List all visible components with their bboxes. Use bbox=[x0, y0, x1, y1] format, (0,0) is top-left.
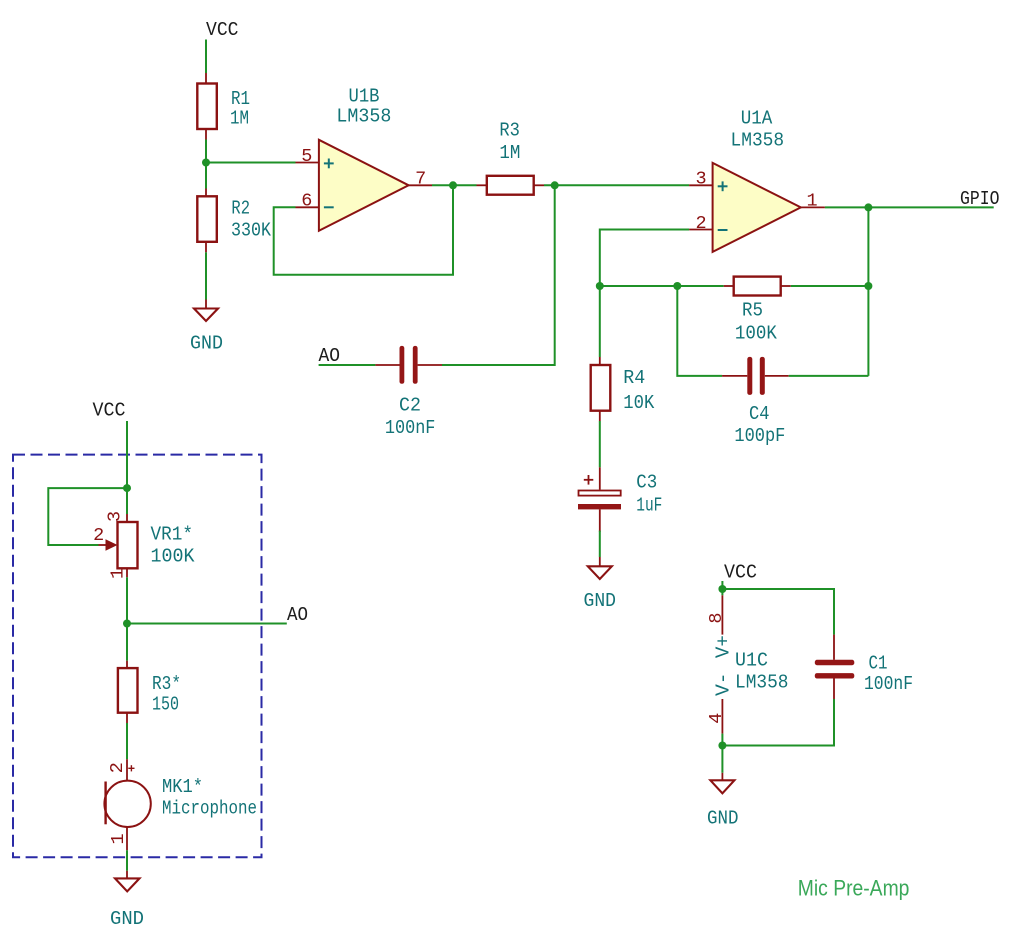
pin 6 of U1B bbox=[296, 206, 319, 208]
svg-text:VR1*: VR1* bbox=[151, 524, 194, 546]
svg-text:AO: AO bbox=[319, 345, 341, 367]
svg-text:V+: V+ bbox=[713, 635, 735, 658]
svg-text:AO: AO bbox=[287, 604, 308, 626]
svg-text:2: 2 bbox=[695, 213, 706, 234]
dashed box (mic module) bbox=[13, 455, 262, 858]
wire top rail to C1 bbox=[722, 589, 834, 635]
wire C2 to R3 junction bbox=[442, 185, 555, 365]
wire U1A pin2 to R5 node bbox=[600, 230, 689, 287]
wire C4 left branch bbox=[677, 286, 722, 376]
wire R5 right segment bbox=[791, 285, 869, 287]
svg-text:4: 4 bbox=[706, 713, 727, 724]
pin name - (U1B) bbox=[324, 206, 334, 208]
pin name + (U1B) bbox=[324, 159, 334, 169]
svg-text:C1: C1 bbox=[869, 653, 888, 675]
wire R3 to U1A pin 3 bbox=[544, 184, 689, 186]
svg-text:MK1*: MK1* bbox=[162, 776, 203, 798]
resistor R5 bbox=[724, 277, 791, 296]
junction U1A output bbox=[864, 203, 872, 211]
pin plus mark (MK1) bbox=[128, 765, 134, 771]
wire pin4 to GND bbox=[721, 734, 723, 773]
wire R5 left segment bbox=[600, 285, 724, 287]
wire MK1 to GND bbox=[126, 850, 128, 871]
svg-text:150: 150 bbox=[152, 694, 179, 716]
svg-text:Microphone: Microphone bbox=[162, 798, 257, 820]
svg-text:U1A: U1A bbox=[741, 108, 773, 130]
wire C1 bottom to rail bbox=[722, 699, 834, 746]
svg-text:10K: 10K bbox=[623, 392, 655, 414]
pin 2 of U1A bbox=[689, 229, 713, 231]
wire C4 right to feedback bbox=[789, 375, 869, 377]
junction pin2/R4 node bbox=[596, 282, 604, 290]
resistor R3* bbox=[118, 661, 138, 723]
junction U1B output bbox=[449, 181, 457, 189]
junction VCC/C1 top bbox=[718, 585, 726, 593]
pin 5 of U1B bbox=[296, 162, 319, 164]
svg-text:100nF: 100nF bbox=[385, 417, 436, 439]
svg-text:C2: C2 bbox=[399, 395, 421, 417]
svg-text:LM358: LM358 bbox=[731, 130, 785, 152]
wire junction to U1B pin 5 bbox=[206, 162, 296, 164]
microphone MK1 bbox=[104, 759, 150, 850]
junction R3/C2 bbox=[551, 181, 559, 189]
junction R1/R2/pin5 bbox=[202, 159, 210, 167]
junction VCC/VR1 loop bbox=[123, 484, 131, 492]
capacitor C3 (polarized) bbox=[578, 467, 621, 532]
resistor R2 bbox=[197, 189, 217, 253]
pin name - (U1A) bbox=[718, 229, 728, 231]
svg-text:VCC: VCC bbox=[93, 400, 126, 422]
svg-text:C3: C3 bbox=[636, 472, 657, 494]
pin name + (U1A) bbox=[718, 181, 728, 191]
junction bottom rail bbox=[718, 742, 726, 750]
svg-text:GND: GND bbox=[110, 908, 144, 930]
svg-text:C4: C4 bbox=[749, 403, 770, 425]
svg-text:8: 8 bbox=[706, 612, 727, 623]
svg-text:R3*: R3* bbox=[152, 673, 181, 695]
wire R3* to MK1 bbox=[126, 723, 128, 759]
potentiometer VR1 bbox=[99, 514, 138, 577]
svg-text:100K: 100K bbox=[151, 546, 196, 568]
wire VCC to R1 bbox=[205, 40, 207, 74]
capacitor C4 bbox=[722, 357, 789, 395]
op-amp U1A bbox=[713, 163, 801, 252]
wire AO to C2 bbox=[319, 364, 376, 366]
svg-text:VCC: VCC bbox=[724, 562, 757, 584]
svg-text:Mic Pre-Amp: Mic Pre-Amp bbox=[798, 875, 910, 900]
svg-text:R2: R2 bbox=[231, 198, 250, 220]
wire R4 node down bbox=[599, 286, 601, 357]
wire VCC to VR1 bbox=[126, 421, 128, 514]
svg-text:LM358: LM358 bbox=[336, 106, 391, 128]
ground symbol (below R2) bbox=[194, 300, 218, 322]
svg-text:GND: GND bbox=[707, 808, 739, 830]
svg-text:U1B: U1B bbox=[349, 86, 380, 108]
svg-text:1: 1 bbox=[107, 568, 128, 579]
junction R5/feedback bbox=[864, 282, 872, 290]
resistor R4 bbox=[591, 357, 611, 421]
wire AO out bbox=[127, 623, 287, 625]
svg-text:GND: GND bbox=[190, 333, 223, 355]
svg-text:6: 6 bbox=[301, 191, 312, 212]
wire VR1 to R3* bbox=[126, 577, 128, 660]
svg-text:3: 3 bbox=[695, 169, 706, 190]
wire U1A output to GPIO bbox=[825, 206, 994, 208]
ground symbol (U1C) bbox=[710, 773, 734, 794]
svg-text:1: 1 bbox=[806, 191, 817, 212]
junction C4 branch bbox=[673, 282, 681, 290]
op-amp U1C power pins bbox=[721, 595, 723, 733]
svg-text:7: 7 bbox=[415, 169, 426, 190]
svg-text:R3: R3 bbox=[499, 120, 520, 142]
op-amp U1B bbox=[319, 140, 409, 231]
svg-text:LM358: LM358 bbox=[735, 672, 789, 694]
svg-text:330K: 330K bbox=[231, 219, 272, 241]
svg-text:1M: 1M bbox=[230, 108, 249, 130]
pin 3 of U1A bbox=[689, 184, 713, 186]
svg-text:2: 2 bbox=[107, 762, 128, 773]
capacitor C2 bbox=[375, 346, 442, 384]
svg-text:U1C: U1C bbox=[735, 650, 768, 672]
svg-text:VCC: VCC bbox=[206, 19, 239, 41]
wire R2 to GND bbox=[205, 252, 207, 299]
svg-text:R5: R5 bbox=[742, 300, 763, 322]
svg-text:3: 3 bbox=[105, 511, 126, 522]
svg-text:1: 1 bbox=[108, 833, 129, 844]
wire VR1 wiper loop bbox=[48, 488, 127, 545]
svg-text:100pF: 100pF bbox=[734, 425, 785, 447]
svg-text:5: 5 bbox=[301, 146, 312, 167]
ground symbol (mic) bbox=[115, 871, 140, 892]
svg-text:R4: R4 bbox=[623, 367, 645, 389]
svg-text:V-: V- bbox=[713, 672, 735, 696]
wire R1 to R2 bbox=[205, 140, 207, 189]
pin 7 of U1B (output) bbox=[409, 184, 432, 186]
svg-text:GPIO: GPIO bbox=[960, 188, 1000, 210]
svg-text:1M: 1M bbox=[499, 142, 520, 164]
wire VCC to pin8 bbox=[721, 581, 723, 595]
wire feedback vertical (output to C4) bbox=[867, 207, 869, 376]
resistor R3 bbox=[477, 176, 545, 195]
wire U1B output to R3 bbox=[432, 184, 477, 186]
wire C3 to GND bbox=[599, 531, 601, 557]
junction AO node bbox=[123, 620, 131, 628]
capacitor C1 bbox=[815, 635, 855, 699]
resistor R1 bbox=[197, 73, 217, 140]
pin 1 of U1A (output) bbox=[801, 206, 825, 208]
svg-text:100K: 100K bbox=[735, 323, 778, 345]
ground symbol (below C3) bbox=[588, 557, 612, 579]
svg-text:GND: GND bbox=[584, 590, 617, 612]
svg-text:2: 2 bbox=[93, 525, 104, 546]
wire R4 to C3 bbox=[599, 421, 601, 467]
svg-text:1uF: 1uF bbox=[636, 495, 662, 517]
svg-text:100nF: 100nF bbox=[864, 673, 913, 695]
wire feedback U1B pin6 loop bbox=[274, 185, 453, 274]
